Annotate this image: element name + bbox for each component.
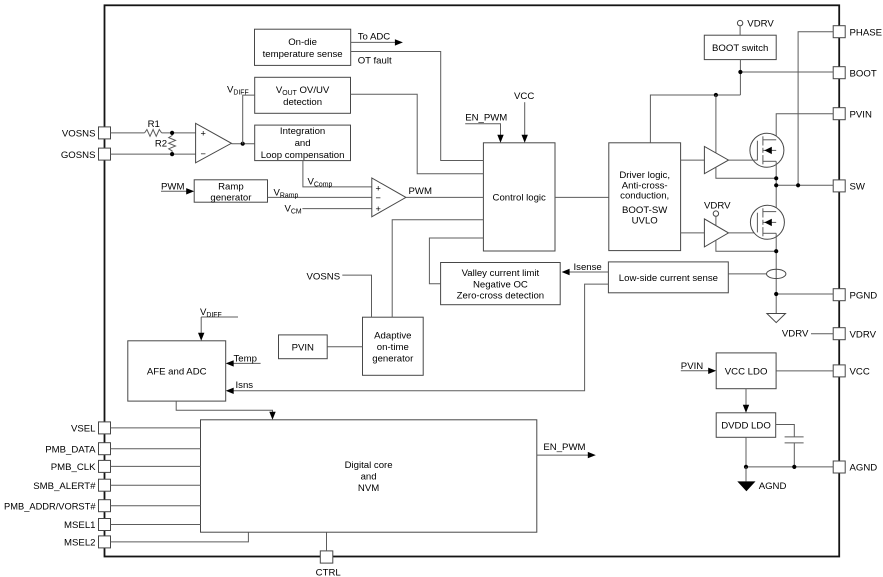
pin VOSNS — [62, 127, 111, 140]
node SW junction phase — [796, 183, 800, 187]
pin SMB_ALERT# — [33, 479, 110, 492]
svg-text:PMB_ADDR/VORST#: PMB_ADDR/VORST# — [4, 501, 96, 511]
node PGND junction — [774, 292, 778, 296]
transistor Q2 low-side MOSFET — [750, 205, 784, 239]
svg-text:Adaptive: Adaptive — [374, 331, 411, 342]
wire Integration output to Vcomp input — [303, 161, 372, 187]
wire CTRL stem — [326, 532, 328, 551]
wire VCC LDO to DVDD LDO — [743, 389, 749, 413]
svg-text:PHASE: PHASE — [850, 27, 883, 38]
pin PGND — [833, 289, 877, 302]
wire PGND node to PGND pin — [776, 293, 833, 295]
wire Vdiff riser to OV/UV box — [243, 95, 255, 144]
wire PVIN into VCC LDO — [681, 361, 716, 374]
svg-text:CTRL: CTRL — [316, 567, 342, 577]
svg-text:−: − — [201, 149, 206, 159]
wire low-side source down through sensor to ground — [775, 233, 777, 313]
wire EN_PWM output from Digital core — [537, 442, 596, 458]
ground symbol AGND — [737, 467, 786, 492]
svg-text:PMB_DATA: PMB_DATA — [45, 444, 96, 455]
svg-text:VDRV: VDRV — [782, 328, 809, 339]
svg-text:EN_PWM: EN_PWM — [465, 113, 507, 124]
label Vdiff top — [227, 84, 249, 96]
svg-text:VDRV: VDRV — [704, 200, 731, 211]
node Vdiff junction — [241, 142, 245, 146]
wire high-side source down to low-side drain — [775, 161, 777, 211]
node BOOT junction — [738, 70, 742, 74]
op-amp high-side gate driver — [704, 147, 728, 174]
svg-text:VDIFF: VDIFF — [227, 84, 249, 96]
svg-text:on-time: on-time — [377, 342, 409, 353]
pin MSEL1 — [64, 519, 110, 532]
svg-text:AFE and ADC: AFE and ADC — [147, 367, 207, 378]
svg-text:VComp: VComp — [308, 177, 333, 189]
wire MSEL1 to Digital core — [111, 524, 201, 526]
svg-text:Valley current limit: Valley current limit — [462, 268, 540, 279]
transistor Q1 high-side MOSFET — [750, 133, 784, 167]
wire OV/UV output to Control logic — [351, 94, 484, 174]
wire low-side gate — [729, 232, 758, 234]
wire Vramp to comparator — [268, 187, 372, 199]
wire Vdiff into AFE — [198, 307, 238, 341]
svg-text:BOOT: BOOT — [850, 68, 877, 79]
op-amp differential amplifier — [196, 123, 232, 163]
wire VDRV terminal to low-side driver top — [715, 216, 717, 225]
svg-text:VDRV: VDRV — [747, 19, 774, 30]
pin SW — [833, 180, 866, 193]
node low-side rail junction — [774, 249, 778, 253]
wire Temp into AFE — [226, 354, 261, 367]
IC boundary border — [105, 5, 840, 556]
pin BOOT — [833, 67, 877, 80]
box Digital core and NVM — [201, 420, 537, 532]
svg-text:detection: detection — [283, 97, 322, 108]
node junction GOSNS/R2 — [170, 152, 174, 156]
svg-text:PWM: PWM — [161, 181, 184, 192]
svg-text:Temp: Temp — [234, 354, 257, 365]
wire To ADC — [351, 31, 403, 45]
wire high-side gate — [729, 159, 758, 161]
wire PMB_ADDR/VORST# to Digital core — [111, 505, 201, 507]
svg-text:MSEL2: MSEL2 — [64, 538, 95, 549]
wire DVDD LDO to AGND rail — [746, 437, 833, 467]
wire Low-side current sense to sensor — [728, 273, 766, 275]
pin MSEL2 — [64, 536, 110, 549]
pin PVIN — [833, 108, 872, 121]
svg-text:PVIN: PVIN — [681, 361, 703, 372]
wire Control logic to Adaptive on-time generator — [392, 220, 483, 317]
svg-text:BOOT switch: BOOT switch — [712, 43, 768, 54]
box Vout OV/UV detection — [255, 77, 351, 113]
svg-text:Control logic: Control logic — [493, 193, 547, 204]
box Driver logic Anti-cross-conduction BOOT-SW UVLO — [609, 143, 681, 251]
svg-text:PWM: PWM — [409, 186, 432, 197]
label Vcomp — [308, 177, 333, 189]
pin VCC — [833, 365, 870, 378]
node junction VOSNS/R2 — [170, 131, 174, 135]
svg-text:PVIN: PVIN — [850, 109, 872, 120]
wire PMB_CLK to Digital core — [111, 465, 201, 467]
svg-text:GOSNS: GOSNS — [61, 150, 96, 161]
svg-text:Anti-cross-: Anti-cross- — [622, 180, 668, 191]
wire diff amp output to Integration box — [231, 143, 254, 145]
svg-text:VCC: VCC — [514, 91, 534, 102]
svg-text:SW: SW — [850, 182, 866, 193]
svg-text:generator: generator — [372, 354, 414, 365]
svg-text:Ramp: Ramp — [218, 182, 244, 193]
wire EN_PWM into Control logic — [465, 113, 507, 143]
wire VCC LDO to VCC pin — [776, 370, 833, 372]
svg-text:To ADC: To ADC — [358, 31, 391, 42]
svg-text:conduction,: conduction, — [620, 191, 669, 202]
box On-die temperature sense — [255, 29, 351, 65]
box VCC LDO — [716, 353, 776, 389]
svg-text:AGND: AGND — [759, 481, 787, 492]
wire Isense to Valley current limit — [562, 262, 609, 275]
node capacitor/AGND junction — [792, 465, 796, 469]
terminal VDRV above BOOT switch — [737, 19, 774, 30]
op-amp PWM comparator — [372, 178, 406, 217]
svg-text:−: − — [376, 193, 381, 203]
wire VDRV label to VDRV pin — [782, 328, 833, 339]
svg-text:and: and — [361, 472, 377, 483]
pin PMB_DATA — [45, 443, 110, 456]
svg-text:Isns: Isns — [236, 380, 254, 391]
wire BOOT switch to BOOT pin and boot rail — [740, 60, 833, 95]
wire VSEL to Digital core — [111, 427, 201, 429]
pin VSEL — [71, 422, 111, 435]
wire high-side driver input — [681, 159, 705, 161]
wire VDRV terminal to BOOT switch — [739, 26, 741, 35]
svg-text:Digital core: Digital core — [345, 460, 393, 471]
svg-text:VOSNS: VOSNS — [307, 272, 341, 283]
wire Isns from current sense to AFE — [226, 284, 609, 394]
wire low-side driver bottom rail — [716, 240, 776, 251]
wire OT fault to Control logic — [351, 52, 484, 161]
wire AFE to Digital core — [176, 401, 275, 420]
resistor R2 — [155, 133, 176, 154]
svg-text:VOSNS: VOSNS — [62, 129, 96, 140]
wire MSEL2 to Digital core bottom — [111, 532, 249, 542]
svg-text:Integration: Integration — [280, 126, 325, 137]
svg-text:Low-side current sense: Low-side current sense — [619, 273, 718, 284]
svg-text:NVM: NVM — [358, 483, 379, 494]
box Ramp generator — [194, 180, 267, 204]
wire high-side driver bottom rail to SW — [716, 167, 776, 178]
box DVDD LDO — [716, 413, 776, 438]
svg-text:R1: R1 — [148, 119, 160, 130]
svg-text:Zero-cross detection: Zero-cross detection — [457, 291, 544, 302]
svg-text:Loop compensation: Loop compensation — [261, 150, 345, 161]
svg-text:Isense: Isense — [574, 262, 602, 273]
resistor R1 — [145, 119, 162, 136]
wire Control logic to Valley current limit — [429, 238, 483, 284]
op-amp low-side gate driver — [704, 219, 728, 247]
wire VOSNS label to Adaptive on-time generator — [307, 272, 372, 318]
node DVDD/AGND junction — [744, 465, 748, 469]
wire PWM comparator output to Control logic — [406, 186, 484, 197]
box Adaptive on-time generator — [363, 317, 424, 375]
svg-text:AGND: AGND — [850, 463, 878, 474]
svg-text:UVLO: UVLO — [632, 216, 658, 227]
box Valley current limit Negative OC Zero-cross detection — [441, 263, 561, 305]
current sensor ellipse — [767, 269, 786, 278]
wire VOSNS to R1 — [111, 132, 145, 134]
pin PMB_ADDR/VORST# — [4, 500, 110, 512]
wire PHASE pin down to SW node — [798, 32, 833, 186]
svg-text:On-die: On-die — [288, 37, 317, 48]
wire boot rail to high-side driver top — [715, 95, 717, 153]
pin CTRL — [316, 551, 342, 577]
box PVIN input buffer — [279, 335, 328, 359]
capacitor C1 on DVDD — [776, 425, 804, 467]
box AFE and ADC — [128, 341, 226, 401]
box BOOT switch — [704, 35, 776, 59]
svg-text:PMB_CLK: PMB_CLK — [51, 462, 96, 473]
svg-text:PGND: PGND — [850, 290, 878, 301]
wire SW node to SW pin — [776, 184, 833, 186]
svg-text:EN_PWM: EN_PWM — [543, 442, 585, 453]
svg-text:VCC: VCC — [850, 367, 870, 378]
svg-text:VCM: VCM — [285, 203, 302, 215]
wire SMB_ALERT# to Digital core — [111, 484, 201, 486]
svg-text:VSEL: VSEL — [71, 424, 96, 435]
wire low-side driver input — [681, 232, 705, 234]
wire VCC into Control logic — [514, 91, 534, 143]
wire Control logic to Driver logic — [555, 196, 609, 198]
wire boot rail to driver logic top — [650, 95, 740, 143]
svg-text:DVDD LDO: DVDD LDO — [721, 420, 771, 431]
box Control logic U-CTL — [483, 143, 555, 251]
pin PHASE — [833, 26, 882, 39]
svg-text:SMB_ALERT#: SMB_ALERT# — [33, 481, 96, 492]
svg-text:VDIFF: VDIFF — [200, 307, 222, 319]
wire PVIN box to Adaptive on-time generator — [327, 346, 362, 348]
ground symbol power ground — [767, 314, 786, 323]
node driver rail junction on SW leg — [774, 176, 778, 180]
wire R1 to diff amp + input — [162, 132, 196, 134]
svg-text:PVIN: PVIN — [292, 343, 314, 354]
svg-text:and: and — [295, 138, 311, 149]
wire PWM input to Ramp generator — [161, 181, 194, 194]
wire PVIN pin to high-side FET drain — [776, 114, 833, 140]
terminal VDRV above low-side driver — [704, 200, 731, 216]
svg-text:VCC LDO: VCC LDO — [725, 367, 768, 378]
svg-text:R2: R2 — [155, 139, 167, 150]
svg-text:temperature sense: temperature sense — [263, 49, 343, 60]
wire GOSNS to diff amp - input — [111, 153, 196, 155]
wire PMB_DATA to Digital core — [111, 448, 201, 450]
svg-text:VRamp: VRamp — [274, 187, 299, 199]
svg-text:VDRV: VDRV — [850, 329, 877, 340]
svg-text:generator: generator — [210, 193, 252, 204]
svg-text:Negative OC: Negative OC — [473, 279, 528, 290]
svg-text:Driver logic,: Driver logic, — [619, 170, 670, 181]
pin GOSNS — [61, 148, 111, 161]
node boot rail junction — [714, 93, 718, 97]
svg-text:MSEL1: MSEL1 — [64, 520, 95, 531]
node SW junction left — [774, 183, 778, 187]
svg-text:BOOT-SW: BOOT-SW — [622, 205, 668, 216]
box Integration and Loop compensation — [255, 125, 351, 161]
svg-text:OT fault: OT fault — [358, 55, 392, 66]
label Isns — [236, 380, 254, 391]
svg-text:+: + — [376, 204, 381, 214]
wire Vcm to comparator — [285, 203, 372, 215]
pin AGND — [833, 461, 877, 474]
pin PMB_CLK — [51, 460, 111, 473]
pin VDRV — [833, 328, 876, 341]
svg-text:+: + — [201, 129, 206, 139]
box Low-side current sense — [608, 262, 728, 293]
